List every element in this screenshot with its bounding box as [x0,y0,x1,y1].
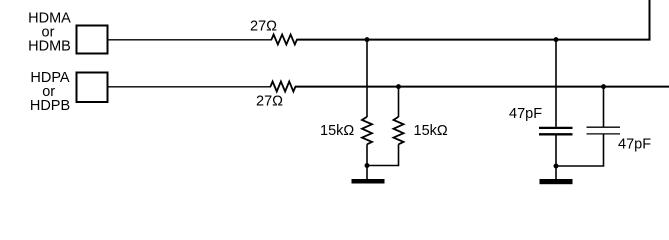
ground 1 (bar) [352,179,385,184]
capacitor 47pF left [539,128,573,134]
wire vertical from bottom net to right 15k resistor [398,87,400,118]
wire from left 15k down to ground node [366,144,368,165]
resistor 15k right (vertical) [394,117,404,145]
svg-text:27Ω: 27Ω [250,19,277,35]
junction dot at resistor ground node [365,163,370,168]
resistor 27ohm (bottom) [271,82,296,92]
wire from right 47pF down and left to cap ground node [556,135,604,167]
junction dot on bottom net at right 47pF tap [601,84,606,89]
svg-text:HDMB: HDMB [28,39,71,55]
capacitor 47pF right [587,127,621,134]
junction dot at capacitor ground node [554,164,559,169]
wire from box HDMA to resistor R-top [109,39,273,41]
junction dot on top net at left 15k tap [365,37,370,42]
wire from box HDPA to resistor R-bottom [109,86,272,88]
wire vertical from top net to left 47pF (crosses bottom net) [555,40,557,127]
svg-text:HDPB: HDPB [30,98,70,114]
wire top net from resistor to corner, rising to top edge [297,0,650,40]
wire from left 47pF down to cap ground node [555,135,557,166]
junction dot on bottom net at right 15k tap [396,84,401,89]
junction dot on top net at left 47pF tap [554,37,559,42]
ground 2 (bar) [540,179,573,184]
wire vertical from top net to left 15k resistor (crosses bottom net) [366,40,368,118]
terminal box HDMA/HDMB [77,26,108,54]
terminal box HDPA/HDPB [77,73,108,103]
svg-text:27Ω: 27Ω [256,94,283,110]
resistor 15k left (vertical) [362,117,372,145]
svg-text:47pF: 47pF [509,106,542,122]
wire stub to ground 1 [366,166,368,180]
svg-text:15kΩ: 15kΩ [414,123,448,139]
svg-text:15kΩ: 15kΩ [320,123,354,139]
wire from right 15k down and left to ground node [367,144,399,165]
wire vertical from bottom net to right 47pF [603,87,605,127]
svg-text:47pF: 47pF [618,136,651,152]
wire stub to ground 2 [555,166,557,179]
wire bottom net from resistor to right edge [295,86,669,88]
resistor 27ohm (top) [272,35,298,45]
